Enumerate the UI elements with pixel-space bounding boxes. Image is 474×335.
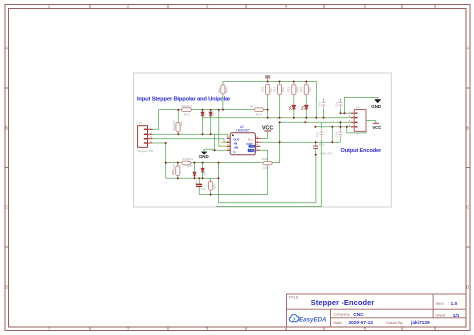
junction (306.3,81.5) [305, 81, 307, 83]
svg-text:10k: 10k [213, 184, 217, 189]
wire cap stubs lower [321, 122, 340, 142]
junction (267.6,109.6) [267, 109, 269, 111]
junction (340.4,113.2) [339, 112, 341, 114]
junction (202.6,178.3) [202, 177, 204, 179]
wire rail y=138.7 J1 pin3 to IC [153, 139, 231, 143]
svg-text:104: 104 [318, 102, 322, 107]
frame row letters right [466, 46, 469, 290]
capacitor C14 pale lower-right [338, 128, 342, 139]
wire rail y=134.4 J1 pin2 to IC [153, 134, 231, 138]
title block outline [287, 294, 467, 327]
junction (165.7,143) [165, 142, 167, 144]
junction (315.7,142.3) [315, 141, 317, 143]
svg-text:104: 104 [315, 132, 319, 137]
wire R14 right vertical [267, 95, 269, 118]
wire rail y=122.3 [280, 121, 355, 123]
resistor RN1 vertical top-right [266, 84, 270, 94]
svg-text:6: 6 [434, 4, 437, 9]
junction (202.5,109.9) [202, 109, 204, 111]
wire diode verticals row1 [203, 110, 211, 134]
junction (202.5,134.3) [202, 133, 204, 135]
wire encoder hook [347, 127, 366, 133]
frame ticks bottom [90, 327, 402, 331]
junction (293.8,81.5) [293, 81, 295, 83]
junction (218.8,109.9) [218, 109, 220, 111]
svg-text:J1: J1 [139, 121, 143, 125]
junction (210.7,109.9) [210, 109, 212, 111]
svg-text:104: 104 [334, 102, 338, 107]
power VCC right [372, 123, 381, 130]
junction (315.4,126.8) [314, 126, 316, 128]
junction (267.6,117.7) [267, 117, 269, 119]
junction (210.7,134.3) [210, 133, 212, 135]
junction (202.6,163) [202, 162, 204, 164]
svg-text:Date:: Date: [334, 321, 343, 325]
junction (279.5,117.7) [279, 117, 281, 119]
svg-text:100k: 100k [262, 157, 269, 161]
resistor RN4 vertical [304, 84, 308, 94]
svg-text:10k: 10k [217, 88, 221, 93]
svg-text:470ohm: 470ohm [181, 104, 192, 108]
svg-text:Sheet:: Sheet: [435, 314, 446, 318]
junction (194.5,163) [194, 162, 196, 164]
svg-text:D: D [5, 285, 8, 290]
wire GND hook right [344, 98, 377, 114]
svg-text:Drawn By:: Drawn By: [386, 321, 403, 325]
frame column numbers bottom [48, 327, 437, 332]
junction (214.6,150.2) [214, 149, 216, 151]
EasyEDA logo [289, 314, 327, 323]
svg-text:R14: R14 [256, 112, 262, 116]
svg-text:Input Stepper Bippolar and Uni: Input Stepper Bippolar and Unipolar [137, 96, 231, 102]
wire rail y=126.8 [315, 126, 354, 128]
schematic sheet area rectangle [134, 73, 392, 207]
wire rail y=117.7 [203, 117, 355, 119]
wire selected stubs (highlighted net) [220, 142, 231, 146]
svg-text:1: 1 [357, 132, 359, 136]
svg-text:R23: R23 [171, 169, 175, 175]
diode D2 [209, 112, 212, 116]
svg-text:R18: R18 [287, 86, 291, 92]
wire resistor stubs top rail [280, 82, 307, 84]
extra tiny gray reference labels [171, 86, 303, 183]
svg-text:+IN: +IN [233, 146, 238, 150]
LED LED1 [289, 105, 296, 110]
wire led top stubs [294, 95, 307, 106]
capacitor C16 pale upper-right [338, 99, 342, 109]
svg-text:TITLE:: TITLE: [288, 295, 299, 299]
wire -IN feedback [272, 142, 279, 162]
junction (293.8,117.7) [293, 117, 295, 119]
wire R12 stubs [177, 110, 179, 134]
junction (315.7,154.6) [315, 154, 317, 156]
resistor R12 vertical [176, 123, 180, 132]
svg-text:D: D [466, 285, 469, 290]
junction (178,109.6) [177, 109, 179, 111]
junction (199,178.3) [198, 177, 200, 179]
junction (267.6,81.5) [267, 81, 269, 83]
junction (306.3,117.7) [305, 117, 307, 119]
svg-text:CNC: CNC [353, 312, 364, 318]
capacitor C13 pale lower-left [319, 128, 323, 139]
wire row2 stubs [178, 163, 203, 179]
pin numbers U2 left [227, 137, 229, 151]
resistor R14 horizontal [255, 108, 264, 112]
svg-text:D4: D4 [202, 171, 206, 175]
svg-text:1: 1 [48, 4, 51, 9]
svg-text:R17: R17 [272, 86, 276, 92]
wire GND stub left [204, 149, 230, 152]
junction (346.8,126.8) [346, 126, 348, 128]
junction (165.7,163) [165, 162, 167, 164]
junction (316,117.7) [315, 117, 317, 119]
diode D4 [201, 168, 204, 172]
junction (279.6,142.3) [279, 141, 281, 143]
svg-text:1/1: 1/1 [453, 313, 460, 319]
resistor R25 vertical row3 [209, 182, 213, 191]
wires (green) [153, 78, 378, 207]
capacitor C2 row3 [196, 184, 202, 186]
junction (178,134.3) [177, 133, 179, 135]
junction (332.3,126.8) [331, 126, 333, 128]
junction (177.8,163) [177, 162, 179, 164]
junction (279.5,81.5) [279, 81, 281, 83]
wire rail y=178.3 [166, 177, 219, 179]
svg-text:GND: GND [199, 154, 209, 159]
junction (323.5,117.7) [323, 117, 325, 119]
junction (340.4,126.8) [339, 126, 341, 128]
svg-text:R12: R12 [179, 120, 183, 126]
svg-text:1: 1 [48, 327, 51, 332]
frame column numbers top [48, 4, 437, 9]
svg-text:C19: C19 [319, 143, 325, 147]
svg-text:V-: V- [233, 150, 236, 154]
svg-text:R13: R13 [184, 112, 190, 116]
wire +IN to right loop [260, 150, 267, 194]
pin numbers J4 [349, 112, 351, 128]
svg-text:C2: C2 [194, 180, 198, 184]
wire R15 bottom stub [222, 94, 224, 110]
junction (218.5,163) [218, 162, 220, 164]
frame row letters left [5, 46, 8, 290]
svg-text:V +: V + [248, 137, 253, 141]
connector J1 [137, 121, 153, 153]
svg-text:1k: 1k [250, 104, 254, 108]
junction (332.3,142.3) [331, 141, 333, 143]
svg-text:3: 3 [206, 4, 209, 9]
op-amp U2 LM393DT [227, 125, 261, 155]
svg-text:5: 5 [364, 4, 367, 9]
frame ticks right [466, 88, 471, 247]
wire cap3 stems [315, 142, 317, 154]
svg-text:A: A [5, 46, 8, 51]
svg-text:R16: R16 [261, 86, 265, 92]
wire cap tops upper [324, 98, 341, 99]
svg-text:3: 3 [206, 327, 209, 332]
svg-text:470ohm: 470ohm [183, 157, 194, 161]
wire top rail y=81.5 [223, 82, 316, 118]
svg-text:10k: 10k [281, 87, 285, 92]
pin numbers J1 [150, 128, 152, 144]
svg-text:Output Encoder: Output Encoder [341, 148, 383, 154]
wire VCC stub top [267, 78, 269, 82]
junction (279.6,122.3) [279, 121, 281, 123]
wire J1 pin4 drop [153, 143, 166, 178]
svg-text:D1: D1 [203, 112, 207, 116]
capacitor C15 pale upper-left [322, 99, 326, 109]
junction (177.8,178.3) [177, 177, 179, 179]
power VCC top small [265, 75, 271, 78]
wire rail y=113.2 [340, 112, 354, 114]
svg-text:D2: D2 [211, 112, 215, 116]
svg-text:C: C [5, 205, 8, 210]
junction dots group [165, 81, 348, 196]
svg-text:Company:: Company: [334, 313, 351, 317]
junction (340.4,122.3) [339, 121, 341, 123]
wire cap bottoms upper [324, 109, 341, 118]
svg-text:B: B [466, 126, 469, 131]
svg-text:2020-07-12: 2020-07-12 [349, 320, 374, 326]
svg-text:J4: J4 [356, 106, 360, 110]
connector J4 encoder [351, 106, 366, 136]
resistor R15 vertical [221, 85, 225, 94]
wire H2 y=202.7 [219, 155, 316, 203]
wire J1 pin1 riser [153, 110, 159, 130]
svg-text:R15: R15 [225, 87, 229, 93]
svg-text:LM393DT: LM393DT [236, 129, 250, 133]
svg-text:2: 2 [127, 327, 130, 332]
wire VCC stem mid [260, 131, 267, 138]
svg-text:2: 2 [127, 4, 130, 9]
LED LED2 [302, 105, 309, 110]
wire IC pin4 riser [214, 134, 216, 150]
wire R25 stems [210, 178, 212, 194]
svg-text:+IN: +IN [249, 149, 255, 153]
wire resistor bottom stubs y=117.7 [280, 95, 307, 118]
frame ticks left [5, 88, 9, 247]
svg-text:A: A [466, 46, 469, 51]
junction (218.5,178.3) [218, 177, 220, 179]
wire rail y=109.6 [159, 109, 268, 111]
svg-text:470ohm: 470ohm [172, 120, 176, 131]
resistor RN2 vertical [277, 84, 281, 94]
junction (210.6,194.6) [210, 194, 212, 196]
junction (194.5,178.3) [194, 177, 196, 179]
svg-text:REV:: REV: [436, 302, 444, 306]
resistor R23 vertical row2 [176, 166, 180, 176]
svg-text:jaki7129: jaki7129 [410, 320, 430, 326]
wire IC out right y=141.8 [260, 141, 340, 143]
pin numbers U2 right [257, 137, 259, 151]
svg-text:C18: C18 [263, 166, 269, 170]
junction (344.4,113.2) [343, 112, 345, 114]
svg-text:1.0: 1.0 [451, 301, 458, 307]
wire H1 y=194.6 [199, 194, 267, 196]
svg-text:C: C [466, 205, 469, 210]
svg-text:R24: R24 [187, 164, 193, 168]
ground GND right [371, 100, 381, 109]
resistor R13 horizontal [181, 108, 191, 112]
svg-text:10k: 10k [308, 87, 312, 92]
svg-text:104: 104 [334, 132, 338, 137]
svg-text:B: B [5, 126, 8, 131]
svg-text:GND 474: GND 474 [320, 152, 333, 156]
wire out riser to rail [279, 122, 281, 142]
frame ticks top [90, 5, 402, 9]
junction (222.9,109.6) [222, 109, 224, 111]
wire riser x=218.5 row2 to H2 [218, 163, 220, 203]
svg-text:1uF: 1uF [201, 187, 206, 191]
svg-text:VCC: VCC [372, 125, 381, 130]
wire rail y=163 [166, 162, 263, 164]
junction (305.4,122.3) [304, 121, 306, 123]
svg-text:EasyEDA: EasyEDA [299, 316, 327, 323]
svg-text:4: 4 [285, 4, 288, 9]
ground GND mid [199, 152, 209, 159]
resistor RF feedback [263, 161, 272, 164]
power VCC mid [262, 125, 273, 131]
wire H3 y=206.5 [216, 140, 321, 207]
svg-text:Stepper -Encoder: Stepper -Encoder [311, 298, 375, 307]
resistor R24 horizontal row2 [182, 161, 191, 165]
svg-text:GND: GND [371, 104, 381, 109]
diode D3 [193, 172, 196, 176]
svg-text:D3: D3 [194, 172, 198, 176]
svg-text:Stepper 4W: Stepper 4W [137, 149, 153, 153]
capacitor C19 red right [313, 146, 318, 148]
wire VCC right stem [366, 121, 376, 124]
diode D1 [201, 112, 204, 116]
svg-text:R19: R19 [299, 86, 303, 92]
resistor RN3 vertical [292, 84, 296, 94]
wire IC pin3 riser [219, 110, 230, 146]
